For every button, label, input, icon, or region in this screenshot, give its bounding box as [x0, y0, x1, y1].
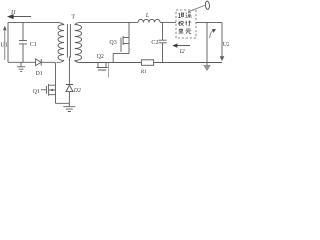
voltage arrow U1 [4, 29, 6, 60]
wire top left rail [8, 22, 58, 62]
svg-text:Q2: Q2 [97, 54, 104, 60]
capacitor C1 [19, 22, 27, 62]
label Q1 [33, 89, 40, 95]
label C2 [151, 40, 158, 46]
resistor R1 [141, 60, 153, 66]
text 过流 [178, 12, 191, 18]
ground (power) [63, 107, 75, 112]
wire top right [196, 21, 222, 23]
svg-text:L: L [145, 13, 150, 19]
current arrow I2 [177, 45, 190, 47]
svg-text:T: T [71, 14, 75, 21]
label T [71, 14, 75, 21]
wire L to box [160, 21, 176, 23]
svg-text:C2: C2 [151, 40, 158, 46]
wire bottom left [8, 62, 56, 103]
overcurrent protection unit (dashed box) [176, 10, 196, 38]
svg-text:Q3: Q3 [109, 40, 116, 46]
text 保护 [178, 21, 191, 26]
bottom rail secondary [79, 62, 222, 64]
label U2 [223, 42, 230, 48]
transformer T secondary winding [75, 25, 82, 61]
label L [145, 13, 150, 19]
svg-text:C1: C1 [30, 42, 37, 48]
text 单元 [179, 28, 192, 33]
wire top secondary [80, 21, 138, 23]
current arrow I1 [13, 16, 31, 18]
transformer core [67, 24, 70, 58]
label D1 [36, 71, 43, 77]
ground (input) [17, 62, 25, 71]
svg-text:R1: R1 [140, 69, 147, 75]
diode D2 [66, 57, 73, 104]
label R1 [140, 69, 147, 75]
transistor Q1 [41, 84, 56, 96]
wire Q1 source to ground [56, 103, 70, 106]
label D oval [205, 1, 210, 10]
label Q3 [109, 40, 116, 46]
label D2 [73, 88, 81, 94]
label I1 [10, 9, 16, 16]
label I2 [179, 49, 185, 55]
leader line to D [188, 5, 205, 12]
wire Q3 to rail [113, 54, 129, 63]
svg-text:U1: U1 [0, 42, 7, 48]
svg-text:I2: I2 [179, 49, 185, 55]
label U1 [0, 42, 7, 48]
output branch with arrow [206, 22, 208, 65]
capacitor C2 [159, 22, 167, 62]
svg-text:U2: U2 [223, 42, 229, 48]
transistor Q2 [97, 63, 108, 71]
svg-text:D2: D2 [73, 88, 81, 94]
inductor L [138, 19, 160, 22]
transistor Q3 [121, 36, 129, 52]
svg-text:D1: D1 [36, 71, 43, 77]
label C1 [30, 42, 37, 48]
node to Q3 [128, 22, 130, 53]
transformer T primary winding [58, 25, 64, 61]
voltage arrow U2 [221, 22, 223, 56]
label Q2 [97, 54, 104, 60]
curved arrow Io [210, 31, 213, 38]
svg-text:Q1: Q1 [33, 89, 40, 95]
diode D1 [36, 59, 41, 66]
